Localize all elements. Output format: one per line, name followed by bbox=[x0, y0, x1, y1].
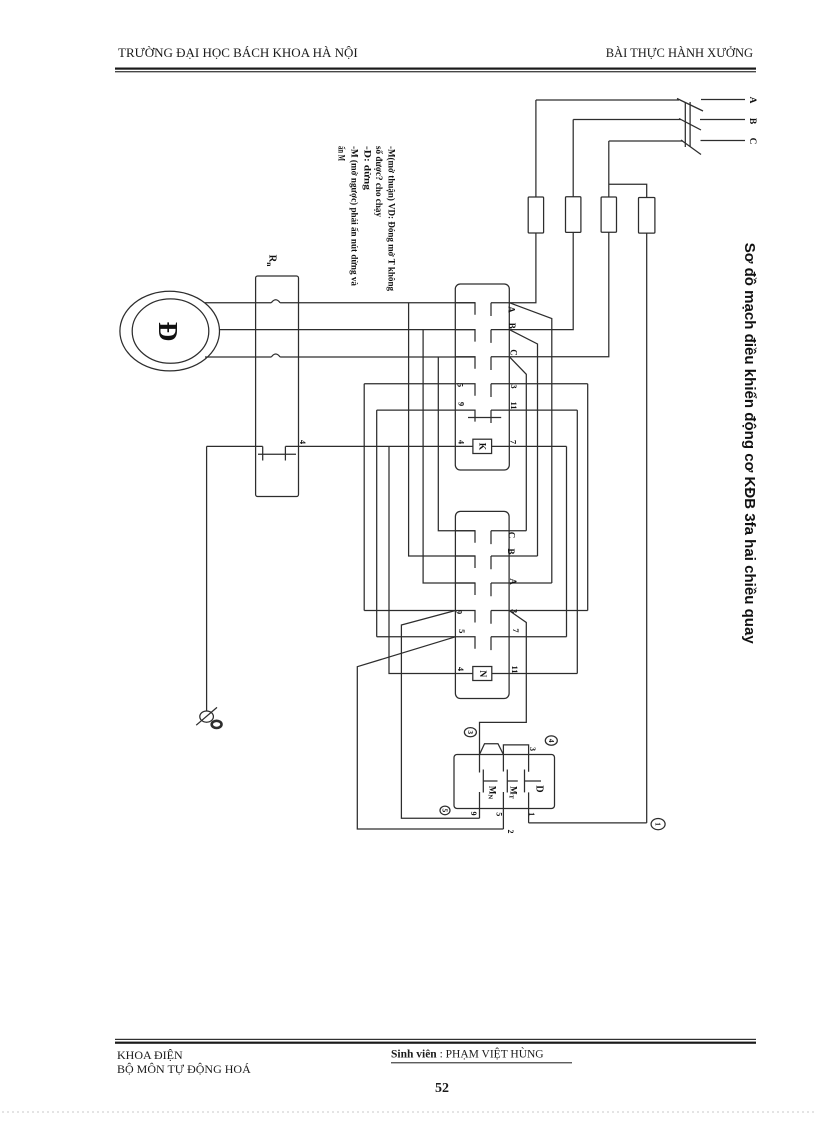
K main contact B bbox=[455, 330, 509, 343]
svg-text:TRƯỜNG ĐẠI HỌC BÁCH KHOA HÀ NỘ: TRƯỜNG ĐẠI HỌC BÁCH KHOA HÀ NỘI bbox=[118, 45, 358, 60]
left loop wire K9 to N5 bbox=[376, 410, 378, 637]
svg-text:9: 9 bbox=[469, 812, 478, 816]
svg-text:3: 3 bbox=[509, 384, 519, 388]
N aux NO contact 5-7 bbox=[377, 637, 567, 650]
neutral terminal O circle bbox=[200, 711, 214, 722]
svg-text:C: C bbox=[507, 532, 517, 539]
phase B incoming line bbox=[573, 119, 681, 121]
svg-text:C: C bbox=[747, 138, 757, 145]
button M_T operator bbox=[507, 770, 518, 793]
svg-text:4: 4 bbox=[298, 440, 308, 445]
svg-text:5: 5 bbox=[456, 383, 466, 387]
svg-text:Đ: Đ bbox=[153, 322, 183, 342]
K diagonal B to N side bbox=[509, 330, 537, 556]
N diagonal from contact 3 down to node 3 bbox=[480, 611, 527, 755]
schematic title rotated bbox=[741, 243, 758, 645]
N diagonal from contact 9 to button M_N bbox=[401, 611, 479, 819]
circled terminal 4 bbox=[545, 736, 557, 745]
svg-text:7: 7 bbox=[509, 440, 519, 445]
svg-text:11: 11 bbox=[509, 401, 519, 409]
branch wire C to fuse F4 bbox=[609, 184, 647, 197]
fuse F2 bbox=[566, 197, 581, 233]
button M_N operator bbox=[483, 770, 497, 793]
svg-text:Rn: Rn bbox=[266, 255, 278, 268]
svg-text:3: 3 bbox=[528, 747, 537, 751]
wire 7 vertical K coil to N contact bbox=[566, 446, 568, 636]
thermal NC contact right hook bbox=[284, 446, 286, 460]
svg-text:1: 1 bbox=[654, 822, 663, 826]
svg-text:C: C bbox=[509, 349, 519, 356]
N aux NO contact 9-3 bbox=[364, 611, 588, 624]
phase A switch blade bbox=[677, 99, 703, 112]
K main contact A bbox=[455, 303, 509, 316]
K aux NC contact 9-11 bbox=[377, 410, 578, 423]
phase A incoming line bbox=[536, 99, 679, 101]
control station enclosure bbox=[454, 755, 555, 809]
svg-text:MN: MN bbox=[487, 786, 498, 800]
motor lead W to K row C bbox=[205, 356, 271, 358]
svg-text:5: 5 bbox=[494, 812, 503, 816]
svg-text:A: A bbox=[507, 306, 517, 313]
N main contact A bbox=[455, 583, 551, 596]
left loop wire K5 to N9 bbox=[363, 384, 365, 611]
svg-text:K: K bbox=[477, 443, 487, 451]
motor Đ outer circle bbox=[120, 291, 220, 371]
phase C stub to terminal bbox=[701, 140, 746, 142]
K aux NC contact bar bbox=[468, 417, 501, 419]
svg-text:9: 9 bbox=[455, 610, 465, 614]
bridge node 3 over M_N to M_T bbox=[480, 744, 504, 755]
bottom dotted separator bbox=[2, 1111, 814, 1113]
wire F1 to contactor K row A bbox=[509, 233, 536, 303]
wire phase B down to fuse F2 bbox=[572, 120, 574, 197]
footer double rule bbox=[115, 1039, 756, 1040]
phase B switch blade bbox=[679, 119, 701, 131]
contactor K enclosure bbox=[455, 284, 509, 470]
neutral wire 4 from terminal O to thermal contact bbox=[207, 445, 263, 447]
K aux NO contact 5-3 bbox=[364, 384, 588, 397]
svg-text:1: 1 bbox=[527, 812, 536, 816]
motor lead U to K row A bbox=[205, 302, 271, 304]
svg-text:3: 3 bbox=[466, 730, 475, 734]
wire 11 vertical K contact to N coil bbox=[576, 410, 578, 673]
wire 4 from thermal contact to coil K bbox=[285, 445, 473, 447]
button D operator bbox=[525, 770, 542, 793]
svg-text:MT: MT bbox=[508, 786, 519, 800]
motor lead W continued bbox=[280, 356, 475, 358]
button M_T contact bbox=[502, 755, 504, 830]
button D contact bbox=[528, 755, 530, 823]
svg-text:52: 52 bbox=[435, 1081, 449, 1096]
motor Đ inner circle bbox=[132, 299, 209, 363]
wire 3 vertical K contact to N contact bbox=[587, 384, 589, 611]
svg-text:A: A bbox=[508, 578, 518, 585]
footer underline under student name bbox=[391, 1062, 572, 1063]
svg-text:N: N bbox=[477, 670, 487, 677]
motor lead V to K row B bbox=[220, 329, 476, 331]
svg-text:B: B bbox=[507, 323, 517, 329]
svg-text:A: A bbox=[747, 97, 757, 104]
coil K box bbox=[473, 439, 492, 453]
button M_N contact bbox=[479, 755, 481, 819]
phase A stub to terminal bbox=[701, 99, 745, 101]
circled terminal 5 bbox=[440, 806, 450, 815]
wire F3 to contactor K row C bbox=[509, 232, 609, 356]
svg-text:BÀI THỰC HÀNH XƯỞNG: BÀI THỰC HÀNH XƯỞNG bbox=[606, 46, 753, 60]
svg-text:-M(mở thuận) VD: Đóng mở T khô: -M(mở thuận) VD: Đóng mở T không bbox=[386, 146, 396, 291]
svg-text:KHOA ĐIỆN: KHOA ĐIỆN bbox=[117, 1048, 183, 1062]
svg-text:4: 4 bbox=[457, 440, 467, 445]
wire F4 down to control circuit node 1 bbox=[646, 233, 648, 823]
svg-text:D: D bbox=[534, 785, 545, 792]
svg-text:2: 2 bbox=[506, 830, 515, 834]
header double rule bbox=[115, 68, 756, 70]
circled terminal 1 bbox=[651, 819, 665, 830]
svg-text:Sinh viên : PHẠM VIỆT HÙNG: Sinh viên : PHẠM VIỆT HÙNG bbox=[391, 1047, 544, 1061]
coil N right wire 11 bbox=[492, 673, 578, 675]
phase C incoming line bbox=[609, 140, 683, 142]
K diagonal A to N side bbox=[509, 303, 552, 583]
svg-text:B: B bbox=[506, 548, 516, 554]
svg-text:5: 5 bbox=[441, 809, 450, 813]
coil N box bbox=[473, 667, 492, 681]
fuse F3 bbox=[601, 197, 616, 232]
fuse F4 bbox=[639, 198, 655, 234]
circled terminal 3 bbox=[464, 728, 476, 737]
thermal NC contact left hook bbox=[262, 446, 264, 460]
K diagonal C to N side bbox=[509, 357, 526, 531]
motor lead U down to N row B bbox=[409, 303, 475, 556]
motor lead W down to N row C bbox=[438, 357, 475, 531]
note block rotated bbox=[337, 146, 397, 291]
wire phase A down to fuse F1 bbox=[535, 100, 537, 197]
wire 4 branch to coil N bbox=[389, 446, 473, 673]
neutral riser from terminal O bbox=[206, 446, 208, 710]
motor lead U continued bbox=[280, 302, 475, 304]
motor lead V down to N row A bbox=[423, 330, 475, 583]
switch linkage bar bbox=[685, 102, 690, 147]
phase B stub to terminal bbox=[700, 119, 745, 121]
svg-text:số được? cho chạy: số được? cho chạy bbox=[374, 146, 384, 218]
wire phase C down to fuse F3 bbox=[608, 141, 610, 197]
svg-text:7: 7 bbox=[511, 628, 521, 633]
svg-text:9: 9 bbox=[456, 402, 466, 406]
N main contact C bbox=[455, 531, 526, 544]
svg-text:3: 3 bbox=[509, 609, 519, 613]
thermal element bump phase W bbox=[271, 354, 280, 357]
thermal element bump phase U bbox=[271, 300, 280, 303]
bridge node 3 over M_T to D bbox=[503, 745, 528, 754]
svg-text:-M (mở ngược) phải ấn nút dừng: -M (mở ngược) phải ấn nút dừng và bbox=[349, 146, 359, 286]
svg-text:B: B bbox=[747, 118, 757, 125]
K main contact C bbox=[455, 357, 509, 370]
svg-text:4: 4 bbox=[456, 667, 466, 672]
wire D bottom to node 1 bbox=[529, 822, 647, 824]
coil K right wire 7 bbox=[492, 445, 567, 447]
thermal relay Rn box bbox=[256, 276, 299, 497]
neutral terminal slash bbox=[196, 707, 217, 725]
svg-text:-D: dừng: -D: dừng bbox=[362, 146, 372, 191]
wire F2 to contactor K row B bbox=[509, 232, 573, 329]
neutral label O bbox=[212, 721, 222, 728]
phase C switch blade bbox=[681, 140, 701, 155]
N main contact B bbox=[455, 556, 537, 569]
N diagonal from contact 5 to button M_T bbox=[357, 637, 503, 829]
svg-text:BỘ MÔN TỰ ĐỘNG HOÁ: BỘ MÔN TỰ ĐỘNG HOÁ bbox=[117, 1062, 251, 1076]
thermal NC contact bar bbox=[258, 453, 296, 455]
contactor N enclosure bbox=[455, 511, 509, 698]
svg-text:4: 4 bbox=[547, 739, 556, 743]
svg-text:5: 5 bbox=[457, 629, 467, 633]
svg-text:Sơ đồ mạch điều khiển động cơ: Sơ đồ mạch điều khiển động cơ KĐB 3fa ha… bbox=[741, 243, 758, 645]
svg-text:ấn M: ấn M bbox=[337, 146, 347, 161]
fuse F1 bbox=[528, 197, 543, 233]
svg-text:11: 11 bbox=[510, 665, 520, 673]
